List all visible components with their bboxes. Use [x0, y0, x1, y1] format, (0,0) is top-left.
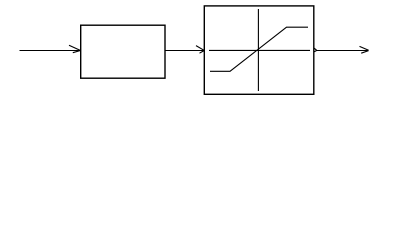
arrowhead into block 1	[69, 45, 80, 52]
arrowhead at output end	[360, 46, 369, 53]
wire input signal line	[20, 50, 81, 52]
saturation transfer curve	[210, 27, 308, 71]
wire between block 1 and saturation block	[165, 50, 204, 52]
saturation block U1 rectangle	[204, 6, 313, 94]
block 1 linear system rectangle	[81, 25, 165, 78]
y-axis of saturation graph	[257, 9, 259, 91]
arrowhead into saturation block	[196, 46, 204, 54]
wire output signal line	[317, 50, 369, 52]
output port marker on saturation block	[314, 48, 317, 52]
x-axis of saturation graph	[209, 49, 310, 51]
